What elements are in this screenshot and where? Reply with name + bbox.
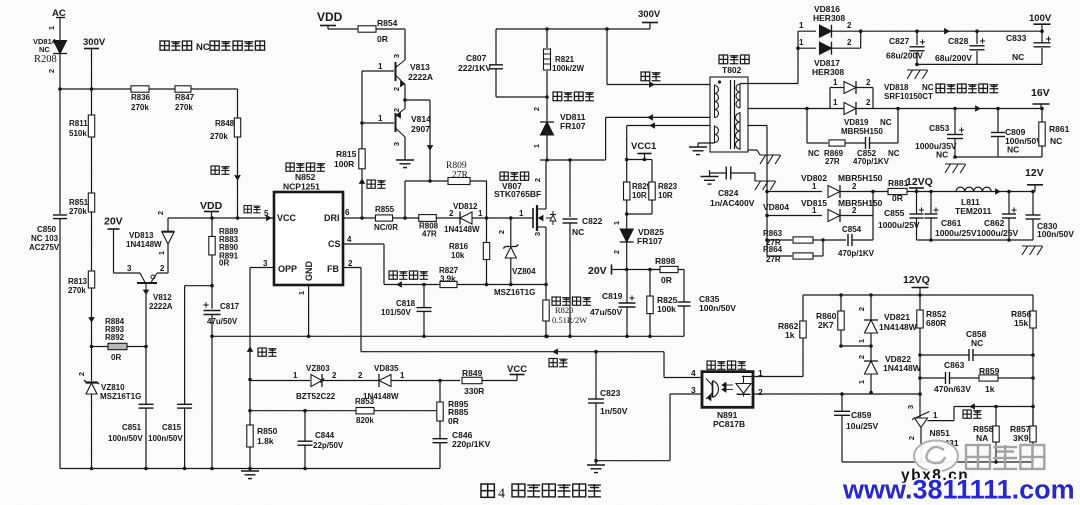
resistor R855: [376, 215, 393, 221]
label spike absorb: [553, 92, 562, 101]
svg-text:C859: C859: [851, 410, 872, 420]
svg-text:R821: R821: [555, 55, 575, 64]
svg-text:2: 2: [156, 211, 165, 215]
svg-text:C853: C853: [929, 123, 950, 133]
svg-text:101/50V: 101/50V: [381, 308, 411, 317]
svg-text:VCC: VCC: [277, 213, 297, 223]
resistor R821: [546, 29, 548, 48]
capacitor C828: [976, 31, 978, 44]
svg-text:2: 2: [358, 371, 363, 380]
svg-text:300V: 300V: [638, 9, 661, 20]
svg-text:T802: T802: [722, 65, 742, 75]
svg-text:100k: 100k: [657, 304, 676, 314]
capacitor C830: [1032, 192, 1034, 216]
svg-text:R815: R815: [336, 149, 357, 159]
svg-text:68u/200V: 68u/200V: [886, 51, 923, 61]
svg-text:C823: C823: [600, 388, 621, 398]
svg-text:270k: 270k: [131, 103, 149, 112]
resistor R856: [1032, 295, 1034, 311]
svg-text:100n/50V: 100n/50V: [148, 434, 183, 443]
svg-text:220p/1KV: 220p/1KV: [452, 439, 491, 449]
svg-text:3: 3: [127, 264, 132, 273]
note text NC: [160, 41, 169, 50]
svg-text:VD802: VD802: [801, 173, 827, 183]
svg-text:NCP1251: NCP1251: [283, 182, 320, 192]
svg-text:R892: R892: [105, 333, 125, 342]
svg-text:1000u/25V1000u/25V: 1000u/25V1000u/25V: [935, 228, 1019, 238]
svg-text:C819: C819: [602, 291, 623, 301]
svg-text:TEM2011: TEM2011: [955, 206, 992, 216]
svg-text:2K7: 2K7: [818, 320, 834, 330]
svg-text:R823: R823: [658, 182, 678, 191]
resistor R895/R885: [439, 381, 441, 403]
transformer T802: [719, 55, 728, 64]
svg-text:2222A: 2222A: [149, 302, 173, 311]
svg-text:20V: 20V: [104, 216, 123, 228]
svg-text:VCC: VCC: [507, 364, 527, 375]
svg-text:12V: 12V: [1025, 167, 1044, 179]
capacitor C862: [1008, 192, 1010, 215]
svg-text:VDD: VDD: [200, 200, 223, 212]
node VCC: [516, 375, 518, 381]
svg-text:1: 1: [799, 38, 804, 47]
zener VZ803: [311, 375, 322, 387]
wire AC lead: [59, 18, 61, 41]
wire 300V stub: [91, 49, 93, 116]
wire to primary bottom: [606, 116, 710, 118]
svg-text:V813: V813: [410, 62, 430, 72]
resistor R836: [131, 86, 149, 92]
svg-text:2: 2: [852, 182, 857, 191]
svg-text:1: 1: [532, 144, 541, 148]
svg-text:C824: C824: [718, 188, 739, 198]
wire V812 emitter: [145, 293, 147, 347]
capacitor C815: [184, 286, 186, 404]
svg-text:R836: R836: [131, 93, 151, 102]
svg-text:C807: C807: [466, 53, 487, 63]
wire VDD rail: [168, 217, 274, 219]
svg-text:C817: C817: [220, 302, 240, 311]
svg-text:1N4148W: 1N4148W: [883, 363, 922, 373]
svg-text:1N4148W: 1N4148W: [444, 225, 480, 234]
svg-text:C828: C828: [948, 36, 969, 46]
resistor R858: [995, 407, 997, 427]
svg-text:1n/AC400V: 1n/AC400V: [710, 198, 755, 208]
svg-text:BZT52C22: BZT52C22: [296, 392, 336, 401]
wire opto emitter return: [596, 460, 670, 462]
transistor V814: [404, 100, 406, 109]
ground C823: [595, 461, 597, 465]
resistor R881: [888, 188, 907, 194]
svg-text:C854: C854: [842, 225, 862, 234]
svg-text:100n/50V: 100n/50V: [1037, 229, 1074, 239]
svg-text:R848: R848: [215, 119, 235, 128]
svg-text:6: 6: [345, 208, 350, 217]
svg-text:1: 1: [519, 209, 524, 218]
capacitor C819: [626, 270, 628, 304]
wire 20V rail: [612, 269, 685, 271]
wire 100V rail: [861, 30, 1042, 32]
zener VZ810: [91, 347, 93, 382]
capacitor C850: [53, 214, 67, 216]
svg-text:NC: NC: [1007, 145, 1019, 155]
svg-text:2: 2: [332, 371, 337, 380]
ground V814: [396, 159, 414, 161]
svg-text:470p/1KV: 470p/1KV: [853, 157, 890, 166]
resistor R864: [767, 255, 792, 257]
svg-text:300V: 300V: [83, 37, 106, 48]
svg-text:100n/50V: 100n/50V: [108, 434, 143, 443]
svg-text:10R: 10R: [632, 191, 647, 200]
svg-text:R853: R853: [355, 397, 375, 406]
ground main: [249, 469, 251, 472]
diode VD835: [379, 375, 391, 387]
resistor R859: [979, 375, 998, 381]
capacitor C863: [920, 377, 946, 379]
svg-text:MBR5H150: MBR5H150: [838, 198, 883, 208]
label regulation: [549, 359, 557, 367]
svg-text:12VQ: 12VQ: [906, 176, 933, 188]
svg-text:N851: N851: [930, 428, 951, 438]
wire OPP line: [250, 267, 274, 269]
svg-text:10k: 10k: [451, 251, 465, 260]
svg-text:820k: 820k: [356, 416, 374, 425]
svg-text:3: 3: [533, 232, 542, 236]
svg-text:MSZ16T1G: MSZ16T1G: [494, 288, 535, 297]
svg-text:3: 3: [392, 142, 401, 146]
svg-text:0R: 0R: [377, 34, 388, 44]
resistor R847: [175, 86, 191, 92]
svg-text:2: 2: [533, 178, 542, 182]
svg-text:3K9: 3K9: [1013, 433, 1029, 443]
svg-text:VZ810: VZ810: [101, 383, 125, 392]
resistor R823: [651, 160, 653, 183]
resistor R862: [802, 295, 804, 321]
resistor R869: [806, 109, 808, 144]
capacitor C807: [495, 29, 497, 65]
label feedback: [258, 348, 266, 356]
svg-text:2: 2: [348, 259, 353, 268]
diode VD802: [767, 191, 822, 193]
wire aux winding segment: [714, 126, 716, 144]
svg-text:NA: NA: [976, 433, 988, 443]
wire base link: [361, 71, 363, 149]
svg-text:1N4148W: 1N4148W: [879, 322, 918, 332]
svg-text:VCC1: VCC1: [631, 141, 657, 152]
svg-text:VD835: VD835: [374, 364, 399, 373]
op-amp U2 optocoupler N891 PC817B: [702, 372, 753, 408]
svg-text:680R: 680R: [926, 318, 946, 328]
svg-text:R816: R816: [449, 242, 469, 251]
svg-text:FR107: FR107: [560, 121, 586, 131]
svg-text:CS: CS: [328, 239, 341, 249]
wire drain node: [540, 159, 606, 161]
svg-text:1n/50V: 1n/50V: [600, 406, 628, 416]
label sampling: [963, 410, 971, 418]
svg-text:0R: 0R: [661, 275, 672, 285]
wire primary ground bus: [212, 335, 684, 337]
svg-text:1: 1: [799, 21, 804, 30]
svg-text:3: 3: [392, 54, 401, 58]
svg-text:R208: R208: [34, 54, 57, 65]
wire snubber mid: [496, 96, 547, 98]
svg-text:2: 2: [847, 21, 852, 30]
resistor R853: [250, 410, 356, 412]
svg-text:1: 1: [297, 291, 306, 295]
svg-text:R849: R849: [462, 368, 483, 378]
capacitor C809: [997, 109, 999, 133]
capacitor C859: [841, 394, 843, 411]
diode VD815: [767, 215, 822, 217]
svg-text:NC: NC: [922, 83, 934, 92]
svg-text:2: 2: [160, 264, 165, 273]
resistor R884/R893/R892: [92, 346, 109, 348]
resistor R829: [626, 160, 628, 183]
svg-text:1k: 1k: [985, 384, 995, 394]
svg-text:NC 103: NC 103: [31, 234, 59, 243]
wire 16V bottom rail: [955, 156, 1042, 158]
svg-text:1: 1: [758, 368, 763, 378]
wire secondary return rail: [842, 461, 1033, 463]
svg-text:SRF10150CT: SRF10150CT: [884, 92, 933, 101]
wire GND pin: [308, 285, 310, 336]
svg-text:2: 2: [847, 38, 852, 47]
svg-text:C833: C833: [1006, 33, 1027, 43]
svg-text:VZ803: VZ803: [306, 364, 330, 373]
wire 12V row: [907, 191, 1033, 193]
capacitor C823: [595, 352, 597, 399]
svg-text:1k: 1k: [785, 330, 795, 340]
svg-text:1: 1: [478, 209, 483, 218]
svg-text:2: 2: [907, 436, 916, 440]
label current sense: [552, 297, 560, 305]
svg-text:R863: R863: [763, 229, 783, 238]
wire FB line: [343, 267, 361, 269]
label supply-5: [244, 206, 251, 213]
svg-text:C861: C861: [941, 218, 962, 228]
svg-text:VD818: VD818: [884, 83, 909, 92]
svg-text:3: 3: [263, 259, 268, 268]
svg-text:R850: R850: [257, 426, 278, 436]
svg-text:330R: 330R: [464, 386, 484, 396]
wire R809 branch: [404, 181, 406, 218]
resistor R857: [1032, 405, 1034, 427]
svg-text:2222A: 2222A: [408, 72, 433, 82]
svg-text:STK0765BF: STK0765BF: [494, 189, 541, 199]
wire zener row: [250, 380, 310, 382]
resistor R854: [358, 26, 376, 32]
resistor R848: [237, 89, 239, 118]
wire emitters to gate line: [405, 99, 430, 101]
wire 12VQ rail: [803, 294, 1033, 296]
wire VDD-R854: [328, 28, 358, 30]
svg-text:C862: C862: [984, 218, 1005, 228]
svg-text:270k: 270k: [210, 132, 228, 141]
capacitor C852: [845, 142, 866, 144]
capacitor C861: [930, 192, 932, 215]
svg-text:1: 1: [857, 380, 866, 384]
svg-text:27R: 27R: [766, 255, 781, 264]
ground C824 left: [709, 170, 711, 177]
capacitor C818: [423, 285, 425, 308]
ground transformer left: [698, 142, 715, 144]
svg-text:270k: 270k: [69, 207, 87, 216]
svg-text:47u/50V: 47u/50V: [590, 307, 622, 317]
svg-text:GND: GND: [304, 261, 314, 282]
capacitor C822: [569, 160, 571, 217]
svg-text:NC: NC: [196, 42, 210, 53]
svg-text:68u/200V: 68u/200V: [935, 53, 972, 63]
wire 100V bottom rail: [917, 63, 1042, 65]
svg-text:R847: R847: [175, 93, 195, 102]
svg-text:VD815: VD815: [801, 198, 827, 208]
capacitor C844: [304, 411, 306, 441]
svg-text:22p/50V: 22p/50V: [313, 441, 344, 450]
svg-text:PC817B: PC817B: [713, 419, 745, 429]
svg-text:2: 2: [857, 307, 866, 311]
caption figure title: [481, 484, 494, 497]
capacitor C855: [916, 192, 918, 215]
svg-text:1000u/25V: 1000u/25V: [878, 220, 920, 230]
resistor R815: [359, 149, 365, 169]
svg-text:20V: 20V: [588, 265, 607, 277]
capacitor C824: [710, 172, 727, 174]
wire R854-V813: [376, 28, 405, 30]
wire 16V row: [748, 108, 1042, 110]
svg-text:V812: V812: [153, 293, 172, 302]
svg-text:1: 1: [400, 371, 405, 380]
svg-text:DRI: DRI: [324, 213, 340, 223]
svg-text:1: 1: [378, 114, 383, 123]
capacitor C827: [916, 31, 918, 45]
wire R851-R813: [91, 212, 93, 271]
svg-text:100R: 100R: [334, 159, 354, 169]
svg-text:1: 1: [612, 221, 621, 225]
svg-text:16V: 16V: [1031, 87, 1050, 99]
svg-text:VZ804: VZ804: [512, 267, 536, 276]
svg-text:VD821: VD821: [884, 312, 910, 322]
svg-text:100k/2W: 100k/2W: [552, 64, 584, 73]
wire R815-DRI: [361, 169, 363, 218]
wire C815 stub: [185, 285, 212, 287]
wire overcurrent line: [384, 284, 546, 286]
svg-text:270k: 270k: [175, 103, 193, 112]
wire source: [545, 227, 547, 300]
svg-text:100n/50V: 100n/50V: [699, 303, 736, 313]
transistor V812: [114, 272, 141, 274]
watermark text dianzibao: [966, 445, 990, 469]
wire R811-R851: [91, 137, 93, 193]
svg-text:1: 1: [293, 371, 298, 380]
svg-text:4: 4: [347, 235, 352, 244]
wire left rail lower: [59, 219, 61, 469]
capacitor C817: [204, 310, 221, 312]
svg-text:NC: NC: [1012, 52, 1024, 62]
svg-text:2: 2: [392, 87, 401, 91]
svg-text:C863: C863: [944, 360, 965, 370]
resistor R820: [543, 300, 549, 321]
wire opto pin1: [742, 376, 753, 378]
svg-text:C827: C827: [889, 36, 910, 46]
svg-text:C855: C855: [884, 208, 905, 218]
wire aux winding: [627, 125, 710, 127]
svg-text:R851: R851: [69, 198, 89, 207]
svg-text:N852: N852: [295, 172, 316, 182]
resistor R816: [486, 181, 488, 243]
wire drain: [545, 160, 547, 209]
svg-text:1: 1: [378, 62, 383, 71]
wire bottom ground bus: [60, 468, 440, 470]
svg-text:HER308: HER308: [813, 13, 845, 23]
resistor R860: [840, 295, 842, 311]
label startup: [211, 166, 219, 174]
svg-text:VDD: VDD: [317, 10, 343, 24]
svg-text:MBR5H150: MBR5H150: [838, 173, 883, 183]
label overcurrent protect: [389, 271, 397, 279]
svg-text:VD812: VD812: [453, 202, 478, 211]
wire R813 to node: [91, 288, 93, 347]
resistor R889/R883/R890: [211, 218, 213, 237]
svg-text:3.9k: 3.9k: [440, 275, 456, 284]
transformer core: [730, 80, 732, 149]
svg-text:R809: R809: [446, 161, 467, 171]
svg-text:0R: 0R: [219, 259, 229, 268]
label switch tube V807: [500, 172, 508, 180]
diode VD821: [870, 295, 872, 320]
svg-text:NC: NC: [39, 45, 50, 54]
svg-text:C818: C818: [396, 299, 416, 308]
resistor R811: [88, 115, 94, 137]
opto LED: [743, 376, 745, 384]
wire startup: [237, 137, 239, 218]
wire opto pin2: [753, 393, 920, 395]
svg-text:R820: R820: [555, 305, 573, 315]
op-amp U1 driver IC N852 NCP1251: [274, 192, 343, 285]
ground 100V: [907, 69, 927, 71]
capacitor C853: [954, 109, 956, 135]
svg-text:NC: NC: [572, 227, 584, 237]
resistor R808: [419, 215, 437, 222]
svg-text:2: 2: [47, 69, 56, 73]
svg-text:R859: R859: [979, 366, 1000, 376]
wire left rail upper: [59, 54, 61, 215]
wire DRI line: [343, 217, 533, 219]
resistor R825: [649, 270, 651, 297]
capacitor C846: [433, 438, 448, 440]
resistor R863: [767, 239, 792, 241]
svg-text:1: 1: [857, 339, 866, 343]
svg-text:27R: 27R: [452, 171, 469, 181]
wire CS: [343, 243, 384, 245]
svg-text:R898: R898: [655, 256, 676, 266]
svg-text:R811: R811: [69, 119, 88, 128]
svg-text:2: 2: [392, 108, 401, 112]
wire secondary pin A: [740, 83, 798, 85]
svg-text:15k: 15k: [1014, 318, 1028, 328]
label secondary rectify: [936, 84, 945, 93]
svg-text:4: 4: [691, 368, 696, 378]
svg-text:FB: FB: [327, 264, 339, 274]
svg-text:2: 2: [857, 355, 866, 359]
svg-text:C844: C844: [315, 431, 335, 440]
capacitor C835: [683, 270, 685, 303]
svg-text:3: 3: [906, 405, 915, 409]
svg-text:270k: 270k: [68, 286, 86, 295]
ground 16V: [945, 163, 965, 165]
resistor R813: [88, 271, 94, 288]
svg-text:1: 1: [833, 78, 838, 87]
svg-text:MBR5H150: MBR5H150: [841, 127, 883, 136]
